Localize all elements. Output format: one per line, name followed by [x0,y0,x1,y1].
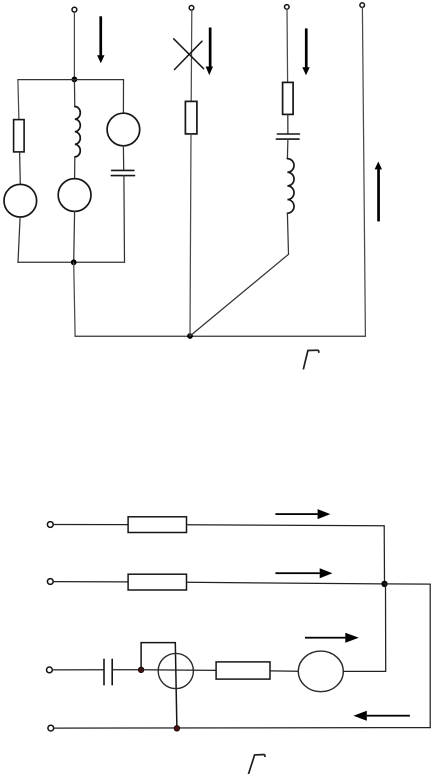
capacitor C1 [111,170,134,175]
wire diagonal L2 to J3 [190,254,289,336]
terminal X1 [47,522,53,528]
wire middle branch upper [73,79,75,106]
capacitor C2 [276,134,299,139]
meter PA1 [58,179,91,212]
inductor L2 [287,159,294,214]
node J3 [187,333,193,339]
inductor L1 [75,107,81,157]
arrow I3 (down) [302,28,309,75]
wire J2 down to ground bus [74,262,75,336]
wire top bus [18,79,124,81]
arrow I5 (right) [275,509,330,519]
wire R6 to M [270,670,298,672]
arrow I2 (down) [206,28,213,76]
terminal X2 [47,579,53,585]
meter PV2 [107,113,140,146]
arrow I7 (right) [305,633,359,643]
label gamma top [303,350,319,369]
wire M up to node J4 [343,584,385,672]
wire bottom rail [54,727,430,730]
wire C3 to node N1 [112,669,141,671]
wire left branch upper [18,80,19,120]
switch-cross X [174,39,204,70]
wire J4 to right rail [385,584,431,728]
terminal T4 [360,3,365,8]
node J4 [381,581,387,587]
resistor R6 [216,662,270,679]
wire C2 to L2 [286,139,289,159]
resistor R3 [283,82,294,114]
wire X3 to C3 [52,669,104,671]
wire bottom bus of block [18,261,125,263]
wire voltage-coil bracket of PW [141,643,177,729]
arrow I8 (left) [353,711,410,721]
wire R2 to node J3 [190,134,191,336]
meter PV1 [4,184,37,217]
wire R3 to C2 [287,114,289,134]
wire C1 to bottom bus [123,176,126,263]
wire PV1 to bottom bus [18,217,20,262]
wire right branch upper [122,80,124,114]
wire T4 down to ground bus [362,8,365,337]
wire L2 down [287,213,288,254]
wire PA1 to node J2 [73,211,76,262]
wire T1 to node J1 [73,12,75,79]
wire N1 through PW to R6 [141,669,216,672]
resistor R1 [14,120,25,152]
terminal X3 [47,667,53,673]
wire X1 to R4 [53,524,128,526]
terminal T1 [72,7,77,12]
resistor R2 [185,101,197,133]
wire PV2 to C1 [122,146,124,171]
terminal T2 [189,6,194,11]
wire R5 to node J4 [187,582,385,584]
terminal T3 [285,5,290,10]
resistor R5 [128,574,186,590]
wire T2 to R2 [190,10,193,101]
resistor R4 [128,517,186,533]
node J2 [71,259,77,265]
arrow I1 (down) [97,16,104,63]
wire R1 to PV1 [19,152,22,185]
source M [298,651,343,692]
wire T3 to R3 [286,9,289,82]
wire R4 to node J4 [187,525,385,584]
node J1 [72,77,78,83]
wire X2 to R5 [53,581,128,583]
node N2 [174,726,179,731]
arrow I4 (up) [375,162,382,222]
wire ground bus [75,335,365,337]
label gamma bottom [248,755,265,774]
terminal X4 [48,725,54,731]
wire L1 to PA1 [74,157,76,179]
arrow I6 (right) [275,568,332,578]
node N1 [138,667,143,672]
wattmeter PW [158,653,193,688]
capacitor C3 [104,659,112,684]
